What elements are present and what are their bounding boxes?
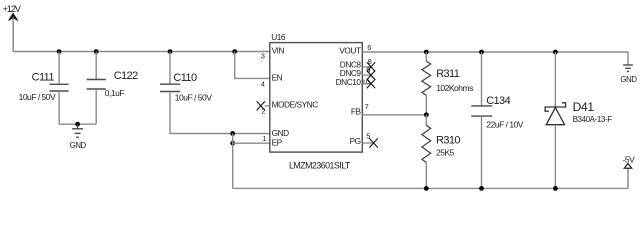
svg-text:10uF / 50V: 10uF / 50V <box>175 92 212 102</box>
wire C111 bottom lead <box>58 91 60 124</box>
node junction C122 on rail <box>94 49 99 54</box>
node junction EP pin wire <box>230 141 235 146</box>
op-amp U16 body <box>270 32 363 170</box>
node junction EN branch on rail <box>232 49 237 54</box>
capacitor C111 <box>19 72 69 103</box>
power +12V <box>3 4 21 52</box>
node junction D41 bottom <box>553 186 558 191</box>
svg-text:EN: EN <box>272 73 283 83</box>
wire EP pin <box>233 142 270 144</box>
svg-text:1: 1 <box>262 134 266 143</box>
pin 3 VIN <box>261 45 285 60</box>
resistor R311 <box>422 52 473 115</box>
node junction R310 bottom <box>424 186 429 191</box>
wire input rail <box>13 51 270 53</box>
ground output GND <box>620 65 637 84</box>
power -5V <box>623 154 636 188</box>
wire EN branch <box>235 52 270 79</box>
node junction C134 top <box>479 50 484 55</box>
svg-text:C122: C122 <box>114 70 138 82</box>
wire VOUT rail <box>362 51 628 53</box>
svg-text:R310: R310 <box>436 135 460 147</box>
ground input GND <box>70 124 87 150</box>
svg-text:102Kohms: 102Kohms <box>436 83 473 93</box>
svg-text:GND: GND <box>70 141 87 150</box>
svg-text:0,1uF: 0,1uF <box>105 88 125 98</box>
node junction gnd link <box>75 122 80 127</box>
svg-text:+12V: +12V <box>3 4 21 14</box>
pin 4 EN <box>261 73 283 89</box>
node junction R311 top <box>424 50 429 55</box>
svg-text:3: 3 <box>261 51 265 60</box>
svg-text:DNC10: DNC10 <box>336 77 362 87</box>
svg-text:25K5: 25K5 <box>436 148 455 158</box>
svg-text:4: 4 <box>261 79 265 88</box>
wire C111 top lead <box>58 52 60 85</box>
pin 1 EP <box>262 134 282 147</box>
svg-text:C111: C111 <box>32 72 55 84</box>
wire C110 top lead <box>169 52 171 85</box>
svg-text:U16: U16 <box>271 32 286 42</box>
pin 6 VOUT <box>339 43 371 56</box>
svg-text:10uF / 50V: 10uF / 50V <box>19 92 56 102</box>
wire FB <box>362 114 426 116</box>
node junction GND pin wire <box>230 131 235 136</box>
capacitor C110 <box>160 72 212 102</box>
pin 8 DNC8 <box>340 57 375 72</box>
pin 7 FB <box>351 102 369 116</box>
capacitor C134 <box>471 52 524 188</box>
svg-text:-5V: -5V <box>623 154 636 164</box>
svg-text:LMZM23601SILT: LMZM23601SILT <box>289 160 351 170</box>
node junction FB / R310 <box>424 112 429 117</box>
pin 2 MODE/SYNC <box>257 100 319 116</box>
svg-text:MODE/SYNC: MODE/SYNC <box>272 100 319 110</box>
svg-text:7: 7 <box>365 102 369 111</box>
svg-text:EP: EP <box>272 137 283 147</box>
svg-text:VOUT: VOUT <box>339 46 361 56</box>
pin 10 DNC10 <box>336 77 376 88</box>
node junction C111 on rail <box>57 49 62 54</box>
svg-text:6: 6 <box>367 43 371 52</box>
wire input gnd link <box>59 123 96 125</box>
node junction D41 top <box>553 50 558 55</box>
svg-text:22uF / 10V: 22uF / 10V <box>486 120 523 130</box>
pin 9 DNC9 <box>340 65 375 79</box>
wire C122 top lead <box>95 52 97 80</box>
resistor R310 <box>422 115 460 189</box>
svg-text:10: 10 <box>362 77 370 86</box>
svg-text:VIN: VIN <box>272 45 285 55</box>
wire C110 bottom lead <box>170 92 270 134</box>
wire to output gnd <box>627 52 629 65</box>
svg-text:D41: D41 <box>573 100 595 114</box>
svg-text:PG: PG <box>350 136 361 146</box>
node junction C134 bottom <box>479 186 484 191</box>
diode D41 <box>545 52 612 188</box>
svg-text:R311: R311 <box>436 68 460 80</box>
wire bottom rail <box>233 187 628 189</box>
svg-text:C110: C110 <box>173 72 197 84</box>
svg-text:B340A-13-F: B340A-13-F <box>573 115 613 124</box>
capacitor C122 <box>87 70 138 98</box>
wire down to bottom rail <box>232 134 234 189</box>
pin 5 PG <box>350 131 378 147</box>
svg-text:GND: GND <box>620 75 637 84</box>
svg-text:FB: FB <box>351 107 362 117</box>
wire C122 bottom lead <box>95 89 97 124</box>
node junction C110 on rail <box>168 49 173 54</box>
